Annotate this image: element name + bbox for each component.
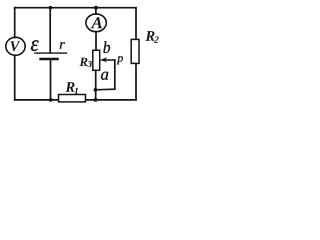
wire: battery branch lower xyxy=(50,60,52,100)
rheostat slider arrow shaft xyxy=(104,59,115,61)
node: slider return / R3 lead junction xyxy=(94,88,98,92)
label: R3 subscript 3 xyxy=(87,61,91,67)
label: ammeter letter A xyxy=(91,17,102,28)
wire: battery branch upper xyxy=(49,8,51,53)
resistor R2 body xyxy=(131,39,139,63)
battery cell: long thin plate xyxy=(35,52,67,54)
resistor R1 body xyxy=(59,95,86,102)
battery cell: short thick plate xyxy=(41,58,58,61)
wire: right rail lower (R2 to bottom rail) xyxy=(135,63,137,100)
wire: left rail upper (top rail to voltmeter) xyxy=(14,8,16,38)
wire: ammeter stub from top rail xyxy=(95,8,97,14)
wire: R3 bottom lead to bottom rail xyxy=(95,70,97,100)
node: ammeter / top rail junction xyxy=(94,6,98,10)
resistor R3 (rheostat) body xyxy=(93,50,100,70)
wire: ammeter to rheostat R3 xyxy=(95,32,97,51)
wire: left rail lower (voltmeter to bottom rail) xyxy=(14,55,16,100)
label: R2 letter R xyxy=(145,31,154,41)
label: slider p xyxy=(117,56,123,64)
label: R3 letter R xyxy=(80,58,88,66)
wire: slider return vertical segment xyxy=(114,60,116,89)
rheostat slider arrow head (points left at R3) xyxy=(100,58,106,62)
label: internal resistance r xyxy=(60,42,65,49)
wire: slider return horizontal segment xyxy=(96,88,115,91)
label: emf epsilon xyxy=(31,40,39,51)
label: R1 subscript 1 xyxy=(74,88,78,94)
wire: top rail xyxy=(15,7,136,9)
node: battery / bottom rail junction xyxy=(49,98,53,102)
node: battery / top rail junction xyxy=(49,6,53,10)
label: voltmeter letter V xyxy=(11,41,21,51)
voltmeter V1: circle xyxy=(6,37,25,55)
ammeter A1: circle xyxy=(86,14,106,32)
label: rheostat terminal b xyxy=(103,41,110,53)
label: rheostat terminal a xyxy=(101,72,108,80)
label: R1 letter R xyxy=(65,82,74,92)
label: R2 subscript 2 xyxy=(154,36,159,42)
wire: right rail upper (top rail to R2) xyxy=(135,8,137,40)
node: R3 lead / bottom rail junction xyxy=(94,98,98,102)
wire: bottom rail xyxy=(15,99,136,101)
